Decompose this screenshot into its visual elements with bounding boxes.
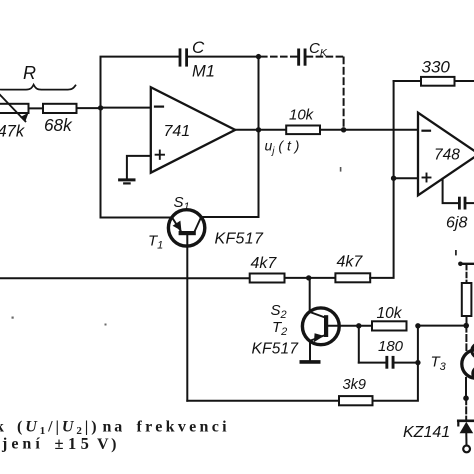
wire: 6j8 to right edge [466, 202, 474, 204]
svg-text:4k7: 4k7 [337, 254, 364, 271]
wire: input node to 741 inverting input [101, 107, 151, 109]
zener diode D1 KZ141 [458, 419, 474, 422]
node: zener top junction [463, 395, 469, 401]
svg-text:k: k [0, 419, 4, 436]
wire: T2 emitter to ground [309, 341, 311, 360]
wire: dashes down to vertical resistor [466, 265, 468, 283]
wire: dashed link feedback node to capacitor CK [261, 56, 298, 58]
node: 10k right junction [415, 323, 420, 328]
svg-text:±15: ±15 [55, 434, 94, 453]
wire: riser top to 330 [394, 80, 421, 82]
resistor R3 10k body [286, 126, 320, 135]
pin minus of 748 [423, 130, 431, 132]
svg-text:741: 741 [164, 123, 191, 140]
transistor Q1 T1 KF517 circle [168, 210, 204, 246]
wire: output node down to T1 collector [201, 130, 258, 217]
resistor R7 3k9 body [339, 396, 373, 405]
svg-text:68k: 68k [44, 115, 73, 135]
capacitor C1 (C M1) [179, 48, 188, 66]
wire: long left rail to 4k7 [0, 277, 250, 279]
resistor R9 vertical body [462, 283, 472, 316]
resistor R8 10k body [372, 321, 407, 330]
pin plus of 741 [156, 151, 164, 159]
transistor T1 base bar [179, 231, 196, 235]
wire: T2 base to 10k node [328, 325, 372, 327]
ground for T2 [301, 360, 318, 364]
wire: 10k to 748 inverting input [320, 129, 418, 131]
svg-text:6j8: 6j8 [446, 215, 467, 232]
wire: node down to T3 [465, 326, 467, 350]
wire: T2 collector up to 4k7 node [309, 278, 311, 312]
transistor T2 collector line [310, 312, 325, 317]
wire: between 4k7 resistors [285, 277, 336, 279]
op-amp U1 741 triangle [151, 87, 235, 173]
node: feedback junction [256, 54, 261, 59]
svg-text:T1: T1 [148, 233, 163, 252]
svg-text:10k: 10k [377, 305, 403, 322]
svg-text:na: na [103, 419, 126, 436]
wire: 68k to input node [77, 107, 101, 109]
wire: 180 right to riser [395, 362, 418, 364]
node: 180 right junction [415, 360, 420, 365]
wire: 330 to right edge [455, 80, 474, 82]
svg-text:748: 748 [434, 147, 460, 164]
svg-text:ájení: ájení [0, 436, 44, 453]
node: T2 collector junction [306, 275, 311, 280]
svg-text:frekvenci: frekvenci [137, 419, 230, 436]
wire: dashed CK to right corner [307, 56, 344, 58]
svg-text:3k9: 3k9 [343, 377, 366, 393]
potentiometer arrow [0, 89, 25, 122]
node: input summing junction [98, 105, 103, 110]
wire: right edge input at top [460, 263, 474, 265]
wire: vertical resistor to T3 node [466, 316, 468, 326]
svg-text:V): V) [97, 436, 119, 453]
transistor T3 upper small circle [472, 344, 474, 358]
wire: top feedback from input node to capacitor C [101, 57, 179, 108]
node: T2 base junction [356, 323, 361, 328]
node: T3 top junction [463, 323, 469, 329]
wire: 4k7 right end to 748 plus riser [370, 81, 393, 278]
wire: bottom rail from T1 base to 3k9 [187, 400, 339, 402]
transistor T3 lower small circle [473, 367, 474, 381]
svg-text:330: 330 [422, 58, 451, 77]
wire: zener anode to terminal [465, 433, 467, 445]
svg-text:47k: 47k [0, 123, 25, 141]
wire: 741 plus input to ground [127, 156, 151, 179]
svg-text:4k7: 4k7 [251, 255, 278, 272]
speck marks from scan [12, 167, 457, 326]
transistor T1 emitter line with arrow [172, 217, 181, 231]
node: 748 plus input junction [391, 176, 396, 181]
transistor T2 base bar [324, 315, 328, 337]
node: CK dashed junction on output line [341, 127, 346, 132]
transistor T1 collector line [195, 217, 201, 231]
capacitor C3 180 [385, 356, 394, 369]
wire: 180 branch left vertical [358, 326, 360, 363]
op-amp U2 748 triangle [418, 113, 474, 196]
wire: capacitor C to feedback node [188, 56, 258, 58]
wire: junction to 748 plus input [394, 177, 418, 179]
node: right edge input end dot [458, 262, 463, 267]
wire: 748 comp stub down to 6j8 [443, 179, 458, 203]
svg-text:T2: T2 [272, 319, 287, 338]
wire: input node down the left side to T1 emitter [101, 108, 172, 218]
svg-text:180: 180 [378, 338, 404, 355]
wire: 741 output to node and 10k [235, 129, 286, 131]
wire: pot to 68k [29, 107, 43, 109]
resistor R2 68k body [43, 104, 77, 113]
wire: 3k9 right to vertical riser [373, 326, 418, 401]
potentiometer R1 47k body [0, 104, 29, 113]
transistor Q2 T2 KF517 circle [302, 308, 339, 345]
pin minus of 741 [155, 105, 163, 107]
svg-text:KZ141: KZ141 [403, 424, 450, 441]
ground for 741 plus input [120, 178, 134, 181]
capacitor CK [297, 49, 306, 66]
wire: node to zener cathode [465, 398, 467, 420]
svg-text:10k: 10k [289, 107, 315, 124]
pin plus of 748 [423, 174, 431, 182]
svg-text:M1: M1 [192, 63, 215, 81]
brace for R over both resistors [0, 85, 76, 90]
capacitor C4 6j8 [458, 197, 466, 210]
wire: 10k node to T3 [418, 325, 466, 327]
transistor T2 emitter line with arrow [310, 335, 325, 341]
svg-text:T3: T3 [431, 354, 447, 374]
terminal: open circle output [463, 446, 470, 453]
svg-text:uj ( t ): uj ( t ) [265, 138, 300, 158]
wire: T1 base down to bottom rail [186, 235, 188, 401]
transistor Q3 T3 circle [462, 350, 474, 378]
wire: 180 branch left horizontal [359, 362, 386, 364]
node: output junction [256, 127, 261, 132]
svg-text:KF517: KF517 [215, 231, 264, 248]
svg-text:R: R [23, 63, 36, 83]
resistor R4 4k7 body [250, 274, 285, 283]
wire: feedback node down to output node [258, 57, 260, 130]
svg-text:CK: CK [309, 40, 328, 59]
svg-text:C: C [192, 38, 205, 57]
resistor R6 330 body [421, 77, 455, 86]
svg-text:S1: S1 [174, 194, 190, 213]
wire: dashed vertical down to 741 output line [343, 58, 345, 129]
svg-text:KF517: KF517 [252, 341, 300, 358]
wire: T3 down to zener node [465, 378, 467, 398]
resistor R5 4k7 second body [335, 273, 370, 282]
